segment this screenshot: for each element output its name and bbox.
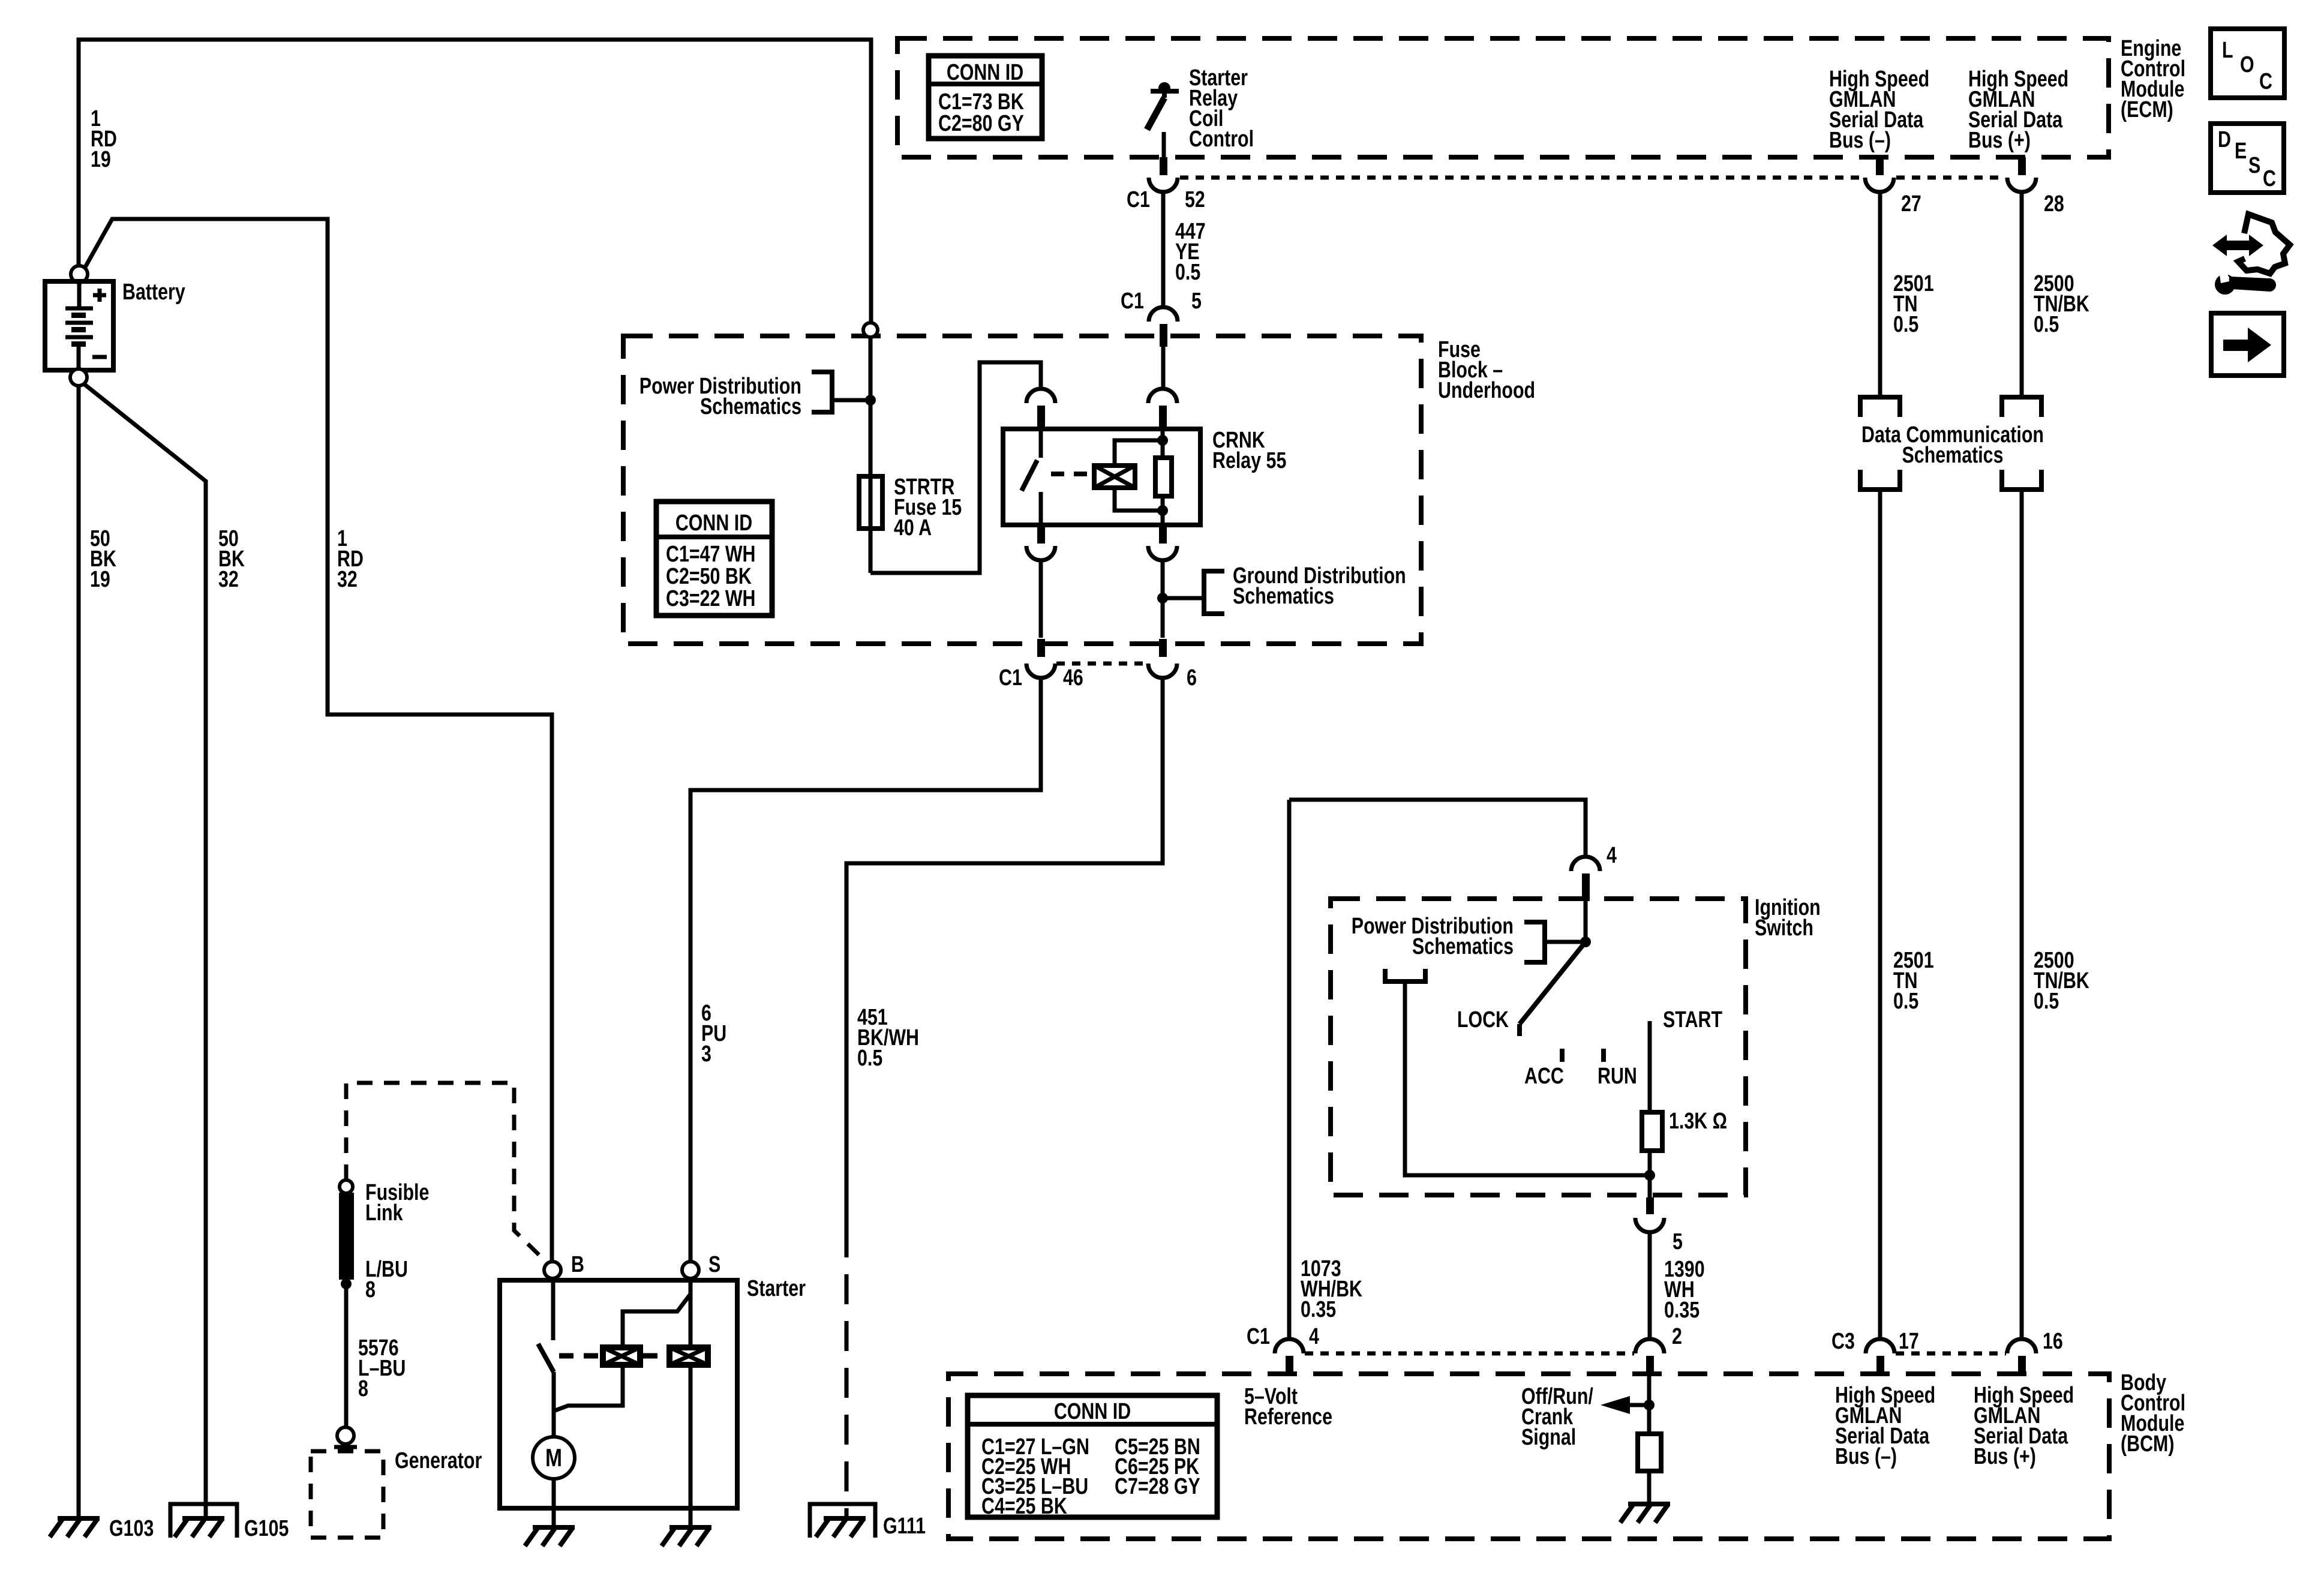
data communication bottom bracket right xyxy=(2002,470,2041,490)
wire 1073 WH/BK 0.5 loop top xyxy=(1289,800,1586,857)
fuse block pin 46 stub xyxy=(1037,639,1045,657)
node starter S terminal xyxy=(682,1262,699,1278)
off run crank signal arrow xyxy=(1601,1396,1630,1414)
starter solenoid switch blade xyxy=(538,1344,554,1372)
ECM CONN ID divider xyxy=(929,82,1042,86)
svg-text:CONN ID: CONN ID xyxy=(947,60,1023,85)
resistor 1.3K body xyxy=(1642,1112,1662,1151)
node relay coil top junction xyxy=(1157,435,1168,446)
CRNK relay pin 3 arc xyxy=(1026,546,1055,560)
node ignition output junction xyxy=(1644,1170,1655,1181)
node junction power distribution tap xyxy=(865,395,876,406)
svg-text:2: 2 xyxy=(1672,1324,1682,1349)
wire 50 BK 32 battery negative to G105 xyxy=(84,384,206,1517)
CRNK relay pin 2 arc xyxy=(1148,389,1177,403)
svg-text:Battery: Battery xyxy=(122,280,185,305)
BCM connector C3 dotted line xyxy=(1896,1352,2006,1356)
starter actuator dashed link 1 xyxy=(559,1353,600,1359)
starter pull-in coil top link xyxy=(623,1294,690,1347)
svg-text:C: C xyxy=(2263,166,2276,191)
relay coil bottom link xyxy=(1115,488,1163,511)
battery plate short 3 xyxy=(71,341,86,347)
svg-text:5: 5 xyxy=(1191,289,1202,314)
ECM pin 27 stub xyxy=(1876,157,1884,175)
relay coil box xyxy=(1094,466,1135,488)
battery plate short 2 xyxy=(71,327,86,332)
relay coil top link xyxy=(1115,440,1163,466)
starter actuator dashed link 2 xyxy=(643,1353,666,1359)
svg-text:G111: G111 xyxy=(883,1514,926,1539)
wire pin 4 to lock switch xyxy=(1584,901,1588,942)
node relay coil bottom junction xyxy=(1157,505,1168,516)
wire fuse output loop to relay switch xyxy=(870,362,1041,573)
generator terminal bar xyxy=(334,1445,357,1449)
fuse block pin 5 stub xyxy=(1160,324,1167,347)
relay switch lower contact xyxy=(1039,492,1043,525)
svg-text:D: D xyxy=(2218,127,2231,152)
starter solenoid ground wire xyxy=(689,1508,693,1527)
wire 451 BK/WH 0.5 relay coil to G111 xyxy=(846,678,1163,1227)
BCM connector C3 pin 17 arc xyxy=(1866,1339,1894,1353)
ignition switch blade LOCK xyxy=(1520,942,1586,1036)
battery plate long 3 xyxy=(65,335,93,340)
svg-text:46: 46 xyxy=(1063,665,1083,691)
ECM pin 27 arc xyxy=(1865,178,1894,192)
starter motor branch wire xyxy=(552,1372,556,1437)
node starter B terminal xyxy=(544,1262,561,1278)
svg-text:L: L xyxy=(2222,38,2233,63)
wire power distribution branch down xyxy=(1405,981,1650,1175)
node crank signal junction xyxy=(1644,1400,1655,1410)
forward icon box xyxy=(2211,313,2284,376)
wire relay right branch lower xyxy=(1161,496,1165,525)
starter relay coil control driver bar xyxy=(1151,89,1179,94)
ECM pin 28 arc xyxy=(2007,178,2036,192)
starter relay coil control switch blade xyxy=(1147,98,1164,130)
wire resistor to BCM ground xyxy=(1647,1471,1652,1504)
wire BCM crank signal internal xyxy=(1647,1374,1652,1434)
wire 451 BK/WH dashed segment xyxy=(845,1227,849,1517)
battery internal wire bottom xyxy=(77,347,81,369)
svg-text:CONN ID: CONN ID xyxy=(1054,1399,1131,1424)
CRNK relay pin 3 stub xyxy=(1037,525,1045,544)
data communication top bracket right xyxy=(2002,397,2041,417)
wire 1 RD 19 from battery positive up and across the top xyxy=(79,40,871,323)
svg-text:27: 27 xyxy=(1901,191,1921,217)
relay switch fixed contact xyxy=(1039,429,1043,458)
wire 50 BK 19 battery negative to G103 xyxy=(77,386,81,1517)
starter pull-in coil X xyxy=(603,1347,640,1365)
svg-text:C5=25 BNC6=25 PKC7=28 GY: C5=25 BNC6=25 PKC7=28 GY xyxy=(1115,1434,1200,1499)
wire power distribution tap xyxy=(832,398,870,403)
node ground distribution tap xyxy=(1157,593,1168,604)
starter B internal wire xyxy=(551,1280,556,1340)
svg-text:C: C xyxy=(2259,69,2272,94)
CRNK relay pin 4 arc xyxy=(1148,546,1177,560)
fuse block connector C1 pin 5 arc xyxy=(1149,307,1178,322)
CRNK relay pin 4 stub xyxy=(1159,525,1167,544)
svg-text:5: 5 xyxy=(1673,1229,1683,1254)
relay switch blade xyxy=(1022,460,1037,491)
svg-text:28: 28 xyxy=(2044,191,2064,217)
power distribution lower bracket xyxy=(1385,969,1425,981)
starter motor ground wire xyxy=(552,1479,556,1527)
starter S internal wire xyxy=(689,1278,693,1508)
node ignition feed junction xyxy=(1580,936,1591,947)
ECM connector dotted line right xyxy=(1896,176,2005,180)
svg-text:C3: C3 xyxy=(1831,1329,1855,1354)
battery plate long 1 xyxy=(65,307,93,311)
ECM CONN ID box xyxy=(929,56,1042,139)
ACC contact tick xyxy=(1560,1049,1565,1062)
body control module BCM dashed box xyxy=(948,1374,2109,1539)
BCM internal ground xyxy=(1620,1504,1670,1523)
fusible link element xyxy=(339,1193,354,1280)
ground G105 bracket xyxy=(170,1504,237,1538)
data communication bottom bracket left xyxy=(1860,470,1900,490)
svg-text:C1=73 BKC2=80 GY: C1=73 BKC2=80 GY xyxy=(938,89,1024,136)
BCM pull-up resistor body xyxy=(1638,1434,1661,1471)
ground G111 xyxy=(816,1518,866,1537)
BCM pin 2 stub xyxy=(1646,1356,1654,1374)
generator dashed box xyxy=(311,1451,383,1538)
svg-text:52: 52 xyxy=(1185,187,1205,212)
svg-text:Generator: Generator xyxy=(395,1448,482,1473)
wire 2500 TN/BK 0.5 lower xyxy=(2020,490,2024,1339)
fuse block pin 6 arc xyxy=(1148,664,1177,678)
wire 2501 TN 0.5 lower xyxy=(1878,490,1882,1339)
wire 5576 L-BU 8 to generator xyxy=(344,1289,349,1427)
relay coil X xyxy=(1094,466,1135,488)
svg-text:6: 6 xyxy=(1187,665,1197,691)
BCM pin 16 stub xyxy=(2018,1356,2026,1374)
ECM connector dotted line left xyxy=(1180,176,1863,180)
BCM pin 17 stub xyxy=(1876,1356,1884,1374)
fusible link dashed feed from starter B xyxy=(346,1083,547,1262)
svg-text:O: O xyxy=(2240,52,2254,77)
relay actuator dashed link xyxy=(1051,472,1092,476)
svg-text:C1: C1 xyxy=(1121,289,1144,314)
ignition switch pin 5 arc xyxy=(1635,1218,1664,1232)
svg-text:C1=47 WHC2=50 BKC3=22 WH: C1=47 WHC2=50 BKC3=22 WH xyxy=(666,542,756,611)
wire relay coil ground branch xyxy=(1161,560,1165,638)
BCM pin 4 stub xyxy=(1286,1356,1293,1374)
svg-text:G105: G105 xyxy=(244,1516,289,1541)
LOC icon box xyxy=(2211,29,2284,98)
CRNK relay pin 2 stub xyxy=(1159,406,1167,429)
svg-text:B: B xyxy=(571,1252,584,1277)
DESC icon box xyxy=(2211,124,2284,193)
compare icon wrench xyxy=(2215,274,2235,295)
starter motor M xyxy=(533,1437,575,1479)
node fusible link top terminal xyxy=(340,1180,353,1193)
CRNK relay 55 box xyxy=(1003,429,1200,525)
svg-text:17: 17 xyxy=(1899,1329,1919,1354)
wire 2500 TN/BK 0.5 upper xyxy=(2020,192,2024,397)
RUN contact tick xyxy=(1601,1049,1606,1062)
wire resistor to pin 5 xyxy=(1648,1151,1652,1197)
node fusible link bottom junction xyxy=(341,1278,352,1289)
svg-text:G103: G103 xyxy=(109,1516,154,1541)
node battery negative terminal xyxy=(70,369,87,386)
wire starter relay coil control to pin 52 xyxy=(1162,132,1166,157)
wire 2501 TN 0.5 upper xyxy=(1878,192,1882,397)
BCM CONN ID box xyxy=(968,1395,1217,1517)
starter hold-in coil X xyxy=(669,1347,708,1365)
svg-text:C1: C1 xyxy=(1247,1324,1270,1349)
svg-text:ACC: ACC xyxy=(1524,1064,1564,1089)
wire relay right branch upper xyxy=(1161,429,1165,458)
starter motor case ground xyxy=(525,1527,575,1546)
power distribution schematics bracket ignition xyxy=(1524,922,1545,962)
node starter relay coil control xyxy=(1158,82,1170,94)
node generator terminal xyxy=(337,1427,354,1444)
wire 1073 WH/BK 0.35 to BCM xyxy=(1287,800,1292,1339)
ECM pin 52 stub xyxy=(1160,157,1167,175)
svg-text:4: 4 xyxy=(1607,843,1617,868)
starter solenoid ground xyxy=(662,1527,711,1546)
fuse block CONN ID box xyxy=(656,502,772,616)
wire 1390 WH 0.35 to BCM xyxy=(1648,1231,1652,1339)
fuse block pin 6 stub xyxy=(1159,639,1167,657)
starter box xyxy=(500,1280,737,1508)
compare icon outline shape xyxy=(2238,214,2290,274)
svg-text:1.3K Ω: 1.3K Ω xyxy=(1669,1109,1727,1134)
wire relay coil supply xyxy=(1161,347,1166,389)
BCM connector C1 dotted line xyxy=(1305,1352,1634,1356)
data communication top bracket left xyxy=(1860,397,1900,417)
fuse STRTR Fuse 15 40A body xyxy=(869,476,873,573)
power distribution schematics bracket fuse block xyxy=(812,372,832,412)
BCM pin 2 arc xyxy=(1635,1339,1664,1353)
engine control module ECM dashed box xyxy=(897,38,2109,157)
wire 1 RD 32 battery positive to starter B xyxy=(85,219,552,1262)
svg-text:CONN ID: CONN ID xyxy=(675,511,752,536)
wire battery feed into fuse block xyxy=(869,337,873,476)
ignition switch pin 4 arc xyxy=(1571,857,1600,871)
battery plus sign xyxy=(93,289,106,302)
svg-text:E: E xyxy=(2235,139,2247,164)
ground G103 xyxy=(50,1518,100,1537)
wire 447 YE 0.5 pin 52 to fuse block xyxy=(1161,192,1166,307)
BCM CONN ID divider xyxy=(968,1422,1217,1427)
ground G111 bracket xyxy=(810,1504,875,1538)
svg-text:C1: C1 xyxy=(1127,187,1150,212)
node junction circle on fuse block edge xyxy=(863,323,878,337)
BCM connector C1 pin 4 arc xyxy=(1275,1339,1304,1353)
svg-text:IgnitionSwitch: IgnitionSwitch xyxy=(1755,895,1821,941)
wire ground distribution tap xyxy=(1163,596,1204,601)
svg-text:START: START xyxy=(1663,1007,1722,1032)
starter hold-in coil box xyxy=(669,1347,708,1365)
ECM connector C1 pin 52 arc xyxy=(1149,178,1178,192)
battery minus sign xyxy=(92,355,107,359)
ignition switch pin 4 stub xyxy=(1582,873,1590,901)
ECM pin 28 stub xyxy=(2018,157,2026,175)
battery plate long 2 xyxy=(65,321,93,325)
CRNK relay pin 1 stub xyxy=(1037,406,1045,429)
battery B1 box xyxy=(45,281,113,370)
svg-text:16: 16 xyxy=(2043,1329,2063,1354)
ground distribution schematics bracket xyxy=(1204,571,1224,614)
wire power distribution to ignition feed xyxy=(1545,940,1586,944)
battery internal wire top xyxy=(77,283,82,307)
svg-text:S: S xyxy=(2248,153,2260,178)
ignition switch pin 5 stub xyxy=(1646,1197,1654,1214)
ignition switch dashed box xyxy=(1331,899,1746,1195)
starter coil feed jog xyxy=(554,1365,623,1411)
svg-text:C1: C1 xyxy=(999,665,1022,691)
BCM pin 16 arc xyxy=(2007,1339,2036,1353)
wire START contact xyxy=(1648,1021,1652,1112)
starter relay coil control switch stub xyxy=(1162,91,1167,98)
wire relay switch output xyxy=(1039,560,1043,638)
svg-text:M: M xyxy=(545,1445,562,1472)
fuse block bottom connector dotted line xyxy=(1056,662,1147,666)
wire 6 PU 3 relay to starter S terminal xyxy=(690,678,1041,1262)
CRNK relay pin 1 arc xyxy=(1026,389,1055,403)
svg-text:Starter: Starter xyxy=(747,1276,806,1301)
node battery positive terminal xyxy=(71,266,88,283)
forward icon arrow xyxy=(2223,340,2250,351)
svg-text:4: 4 xyxy=(1309,1324,1319,1349)
battery plate short 1 xyxy=(71,313,86,318)
fuse block connector C1 pin 46 arc xyxy=(1026,664,1055,678)
compare icon double arrow xyxy=(2212,235,2263,256)
fuse block CONN ID divider xyxy=(656,535,772,539)
svg-text:S: S xyxy=(708,1252,720,1277)
ground G105 xyxy=(175,1518,224,1537)
svg-text:LOCK: LOCK xyxy=(1457,1007,1509,1032)
relay resistor body xyxy=(1155,458,1172,496)
svg-text:RUN: RUN xyxy=(1598,1064,1637,1089)
starter pull-in coil box xyxy=(603,1347,640,1365)
fuse block underhood dashed box xyxy=(623,336,1421,644)
